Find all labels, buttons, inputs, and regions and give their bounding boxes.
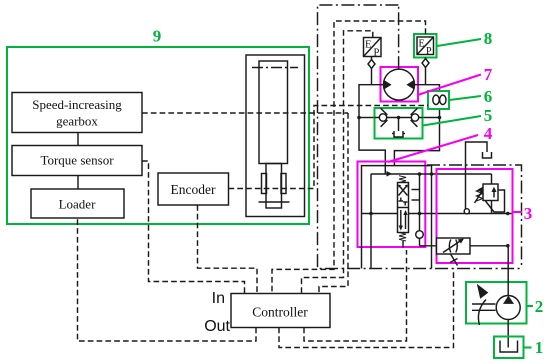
svg-text:3: 3 (524, 204, 533, 223)
svg-text:P: P (426, 46, 432, 57)
svg-text:Out: Out (204, 318, 230, 335)
svg-text:gearbox: gearbox (56, 114, 98, 129)
wire valve top work line (371, 173, 492, 175)
wire relief top loop (491, 174, 493, 184)
wire vent riser (466, 142, 488, 214)
piston lower line (259, 201, 290, 203)
svg-text:E: E (365, 40, 371, 51)
wire motor right port (394, 85, 439, 166)
svg-text:9: 9 (153, 27, 162, 46)
wire E/P U2 to pilot diamond (425, 58, 427, 59)
svg-text:5: 5 (484, 106, 493, 125)
wire enclosure drop (431, 165, 433, 269)
wire controller out to valve solenoid (304, 250, 407, 341)
wire torque sensor to controller (142, 161, 245, 294)
encoder box (158, 173, 229, 205)
wire pump up (507, 246, 509, 296)
tank (box 1) (494, 337, 524, 359)
piston rod (266, 164, 282, 209)
node junction rail-right (418, 212, 422, 216)
cylinder top centerline (252, 67, 298, 69)
wire diamond D2 down (425, 68, 427, 85)
node junction enclosure drop (430, 172, 434, 176)
svg-text:In: In (212, 290, 225, 307)
proportional valve top spring (399, 176, 406, 183)
vent symbol (483, 152, 492, 158)
svg-text:8: 8 (484, 29, 493, 48)
wire encoder to controller (198, 205, 258, 294)
svg-text:2: 2 (535, 297, 544, 316)
shaft wire torque-loader (77, 176, 79, 190)
wire check-valve left port (359, 117, 375, 119)
wire E/P2 to controller (272, 21, 426, 294)
gauge port circle (464, 209, 469, 214)
svg-text:E: E (419, 39, 425, 50)
svg-text:Loader: Loader (59, 197, 96, 212)
node junction top-right (418, 172, 422, 176)
loader box (31, 189, 124, 218)
svg-text:6: 6 (484, 87, 493, 106)
pilot diamond D1 (368, 60, 375, 69)
relief valve RV (475, 184, 499, 203)
proportional valve bottom spring (399, 233, 406, 242)
proportional valve group (box 4) (358, 162, 426, 248)
svg-text:Speed-increasing: Speed-increasing (32, 97, 122, 112)
label 3 (513, 211, 523, 213)
torque sensor box (12, 146, 142, 176)
node junction rail-left (369, 212, 373, 216)
check ball valve (416, 231, 424, 239)
E/P converter U2 (green box 8) (414, 34, 437, 58)
svg-text:P: P (374, 48, 380, 59)
svg-text:4: 4 (484, 124, 493, 143)
node junction flowmeter bottom (438, 116, 442, 120)
wire relief bottom to rail (491, 201, 493, 214)
wire controller out to loader (78, 219, 257, 341)
wire feed line (362, 166, 431, 269)
cylinder outer body (246, 55, 305, 217)
test-rig enclosure box 9 (7, 47, 309, 224)
label 7 (418, 75, 482, 96)
wire ball to pump line (419, 238, 421, 246)
wire motor left port (359, 85, 385, 174)
piston tab left (262, 174, 267, 194)
svg-text:Torque sensor: Torque sensor (40, 153, 114, 168)
main pump pressure wire (420, 245, 508, 247)
wire left branch to rail (370, 174, 372, 269)
node junction motor-left / check line (357, 116, 361, 120)
svg-text:1: 1 (535, 338, 544, 357)
wire encoder to piston sensor (229, 106, 429, 189)
wire speed signal gearbox (142, 112, 348, 114)
label 2 (527, 305, 534, 307)
wire E/P U1 to pilot diamond (371, 57, 373, 60)
pilot diamond D2 (422, 59, 429, 68)
flow arrow on work line (387, 171, 393, 177)
power unit boundary (dash-dot enclosure) (318, 5, 522, 269)
svg-text:Controller: Controller (252, 305, 308, 320)
valve bottom spring stub (402, 241, 404, 248)
label 6 (450, 96, 482, 100)
controller box (231, 294, 330, 328)
wire pump suction (507, 320, 509, 348)
gearbox box (12, 93, 142, 133)
E/P converter U1 (364, 38, 382, 59)
label 4 (388, 135, 478, 162)
shaft wire gearbox-torque (77, 133, 79, 146)
proportional valve body (398, 183, 409, 233)
label 1 (524, 347, 532, 349)
node junction pump-rail (506, 212, 510, 216)
loading valve group (box 3) (437, 169, 513, 263)
wire valve P port stub (412, 189, 420, 191)
wire check-valve right port (423, 117, 440, 119)
pump unit (box 2) (466, 282, 527, 325)
svg-text:7: 7 (484, 65, 493, 84)
piston tab right (281, 174, 286, 194)
pressure rail wire (361, 213, 513, 215)
wire right branch through rail to check ball (419, 174, 421, 231)
label 5 (423, 116, 481, 126)
wire E/P1 branch (302, 31, 373, 294)
wire diamond D1 to motor line (371, 69, 373, 85)
wire relief drain step (486, 190, 505, 212)
dual check valve assembly (box 5) (375, 108, 423, 139)
wire motor top port (398, 5, 400, 69)
wire controller out to throttle (279, 269, 454, 348)
wire speed to controller (319, 113, 348, 294)
label 8 (437, 39, 481, 46)
hydraulic motor M (box 7) (381, 67, 419, 102)
flow meter (box 6) (428, 91, 449, 109)
cylinder inner bore (259, 61, 288, 164)
svg-text:Encoder: Encoder (171, 182, 216, 197)
signal wires (dashed) (78, 21, 454, 348)
throttle valve TV (437, 238, 471, 266)
node junction pump-throttle (506, 244, 510, 248)
